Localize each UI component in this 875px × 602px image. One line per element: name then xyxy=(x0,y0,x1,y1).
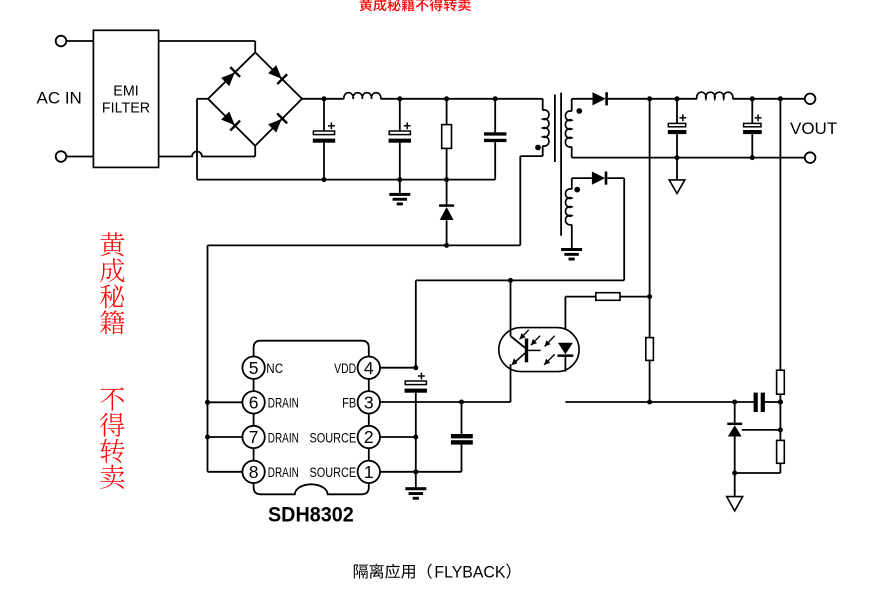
pin 5 xyxy=(242,357,264,379)
pin label DRAIN xyxy=(268,430,299,445)
pin label VDD xyxy=(334,361,356,376)
transformer core xyxy=(555,93,561,236)
junction xyxy=(322,177,327,182)
junction xyxy=(397,96,402,101)
junction xyxy=(459,400,464,405)
svg-text:6: 6 xyxy=(249,393,259,413)
svg-text:5: 5 xyxy=(249,358,259,378)
terminal VOUT+ xyxy=(805,94,816,105)
wire drain bus xyxy=(208,245,243,471)
junction xyxy=(444,243,449,248)
junction xyxy=(778,400,783,405)
label VOUT xyxy=(790,119,837,138)
EMI filter block xyxy=(93,30,158,167)
junction xyxy=(413,469,418,474)
terminal AC N xyxy=(56,151,94,162)
junction xyxy=(647,294,652,299)
junction xyxy=(322,96,327,101)
wire VOUT sense xyxy=(779,99,781,370)
wire drain net xyxy=(208,156,543,245)
junction xyxy=(647,96,652,101)
capacitor C4 xyxy=(668,99,687,158)
junction xyxy=(397,177,402,182)
svg-text:NC: NC xyxy=(266,361,283,376)
pin 7 xyxy=(242,426,264,448)
wire aux to VDD xyxy=(607,178,624,280)
wire source pin1 xyxy=(380,471,462,473)
wire secondary return xyxy=(572,157,805,159)
pin label NC xyxy=(266,361,283,376)
ground primary xyxy=(389,180,410,206)
resistor R2 divider upper xyxy=(777,370,785,394)
TL431 U2 xyxy=(727,423,742,437)
svg-text:DRAIN: DRAIN xyxy=(268,465,299,480)
watermark left upper xyxy=(100,232,125,334)
bridge diode D2 xyxy=(220,111,241,132)
wire aux top xyxy=(572,177,592,179)
terminal VOUT- xyxy=(805,152,816,163)
bridge diode D3 xyxy=(267,64,288,85)
svg-text:FB: FB xyxy=(342,396,356,411)
junction xyxy=(444,177,449,182)
svg-text:4: 4 xyxy=(364,358,374,378)
wire opto collector xyxy=(510,280,512,327)
junction xyxy=(732,471,737,476)
junction xyxy=(750,155,755,160)
junction xyxy=(778,96,783,101)
optocoupler U3 xyxy=(499,328,579,372)
pin label FB xyxy=(342,396,356,411)
wire R4 right xyxy=(620,296,650,298)
pin label SOURCE xyxy=(310,465,357,480)
junction xyxy=(778,427,783,432)
IC U1 SDH8302 body xyxy=(254,341,369,495)
svg-text:FLYBACK: FLYBACK xyxy=(434,563,505,581)
bridge diamond wires xyxy=(208,52,302,145)
inductor L2 xyxy=(697,92,733,99)
wire TL431 ref xyxy=(742,429,781,431)
wire VDD pin xyxy=(380,367,416,369)
ground aux xyxy=(561,248,582,261)
ground secondary xyxy=(669,158,685,194)
junction xyxy=(647,400,652,405)
pin 6 xyxy=(242,391,264,413)
capacitor C2 xyxy=(389,99,411,180)
label AC IN xyxy=(37,89,82,108)
resistor R5 LED parallel xyxy=(646,338,654,361)
wire AC top xyxy=(159,41,256,52)
inductor L1 xyxy=(344,93,381,99)
junction xyxy=(675,155,680,160)
svg-text:1: 1 xyxy=(364,462,374,482)
junction xyxy=(413,435,418,440)
pin 3 xyxy=(358,391,380,413)
wire VDD rail xyxy=(416,280,624,367)
caption CJK xyxy=(354,564,511,579)
capacitor C3 xyxy=(484,99,506,180)
transformer primary winding xyxy=(543,99,549,156)
terminal AC L xyxy=(56,36,94,47)
wire LED anode xyxy=(565,297,595,343)
resistor R3 divider lower xyxy=(777,440,785,463)
diode D6 output rectifier xyxy=(593,92,608,105)
junction xyxy=(444,96,449,101)
label SDH8302 xyxy=(268,503,354,526)
svg-text:2: 2 xyxy=(364,427,374,447)
wire source pin2 xyxy=(380,436,416,438)
transformer aux winding xyxy=(566,178,572,248)
diode D5 snubber xyxy=(439,180,454,246)
transformer secondary winding xyxy=(565,99,571,158)
wire DC- rail xyxy=(197,179,495,181)
svg-text:AC IN: AC IN xyxy=(37,89,82,108)
wire divider xyxy=(779,394,781,440)
pin 8 xyxy=(242,461,264,483)
watermark left lower xyxy=(100,387,125,488)
pin label DRAIN xyxy=(268,396,299,411)
diode D7 aux rectifier xyxy=(592,172,607,185)
wire R5 bottom xyxy=(649,360,651,402)
svg-text:DRAIN: DRAIN xyxy=(268,430,299,445)
junction xyxy=(493,96,498,101)
wire comp right xyxy=(765,401,781,403)
bridge diode D4 xyxy=(267,113,288,134)
pin 1 xyxy=(358,461,380,483)
capacitor C8 FB xyxy=(451,402,473,472)
polarity dot primary xyxy=(535,145,541,151)
resistor R1 snubber xyxy=(442,99,452,180)
watermark top xyxy=(360,0,471,11)
capacitor C5 xyxy=(743,99,762,158)
wire comp xyxy=(565,401,753,403)
capacitor C1 xyxy=(313,99,335,180)
junction xyxy=(675,96,680,101)
resistor R4 LED bias xyxy=(596,293,620,301)
wire bridge minus xyxy=(197,99,208,180)
junction xyxy=(750,96,755,101)
polarity dot secondary xyxy=(576,108,582,114)
capacitor C7 VDD xyxy=(405,373,427,472)
junction xyxy=(205,435,210,440)
svg-text:7: 7 xyxy=(249,427,259,447)
svg-text:8: 8 xyxy=(249,462,259,482)
pin 4 xyxy=(358,357,380,379)
svg-text:VOUT: VOUT xyxy=(790,119,837,138)
ground TL431 xyxy=(727,497,743,511)
caption FLYBACK xyxy=(434,563,505,581)
wire DC+ rail xyxy=(302,98,543,100)
junction xyxy=(508,278,513,283)
svg-text:DRAIN: DRAIN xyxy=(268,396,299,411)
capacitor C6 comp xyxy=(754,393,765,412)
svg-text:3: 3 xyxy=(364,393,374,413)
wire AC bottom with hop xyxy=(159,146,256,157)
junction xyxy=(732,400,737,405)
polarity dot aux xyxy=(574,187,580,193)
wire TL431 cathode xyxy=(734,402,736,423)
svg-text:SOURCE: SOURCE xyxy=(310,465,357,480)
wire secondary top xyxy=(572,98,593,100)
svg-text:VDD: VDD xyxy=(334,361,356,376)
junction xyxy=(778,400,783,405)
junction xyxy=(413,365,418,370)
bridge diode D1 xyxy=(220,66,241,87)
wire TL431 anode xyxy=(734,436,736,496)
pin label DRAIN xyxy=(268,465,299,480)
svg-text:EMI: EMI xyxy=(113,84,138,100)
junction xyxy=(205,400,210,405)
wire output rail xyxy=(608,98,805,100)
wire opto emitter to FB xyxy=(380,372,511,402)
svg-text:FILTER: FILTER xyxy=(102,101,150,117)
pin 2 xyxy=(358,426,380,448)
wire divider bottom xyxy=(735,463,781,473)
svg-text:SOURCE: SOURCE xyxy=(310,430,357,445)
ground IC xyxy=(405,472,426,500)
svg-text:SDH8302: SDH8302 xyxy=(268,503,354,526)
pin label SOURCE xyxy=(310,430,357,445)
wire sense drop xyxy=(649,99,651,338)
